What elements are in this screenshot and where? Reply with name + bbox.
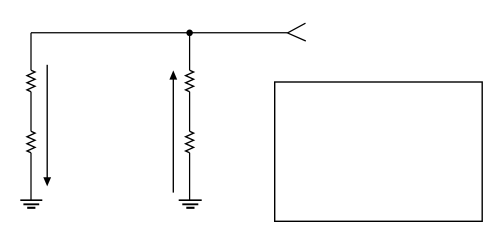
box bbox=[275, 82, 483, 221]
node junction bbox=[186, 30, 193, 37]
wire left bottom bbox=[30, 153, 32, 200]
resistor R1 bbox=[27, 70, 35, 92]
resistor R3 bbox=[186, 70, 194, 92]
resistor R2 bbox=[27, 131, 35, 153]
wire left middle bbox=[30, 92, 32, 132]
wire middle bottom bbox=[189, 153, 191, 200]
wire middle top bbox=[189, 33, 191, 70]
wire middle middle bbox=[189, 92, 191, 132]
current arrow down bbox=[43, 65, 51, 187]
ground middle bbox=[179, 200, 202, 208]
resistor R4 bbox=[186, 131, 194, 153]
wire top horizontal bbox=[31, 32, 288, 34]
ground left bbox=[20, 200, 42, 208]
off-page connector bbox=[288, 23, 306, 41]
wire left top bbox=[30, 33, 32, 70]
current arrow up bbox=[169, 70, 177, 192]
